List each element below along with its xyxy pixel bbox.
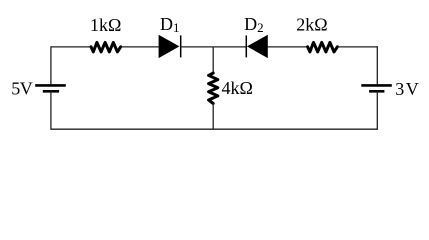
wire R3 down to bottom wire	[212, 104, 214, 130]
diode D1 (anode left, cathode bar right)	[159, 35, 181, 57]
wire left vertical lower (V1 down to corner)	[50, 91, 52, 130]
wire D2 to R2	[267, 46, 307, 48]
svg-text:2kΩ: 2kΩ	[296, 15, 327, 35]
resistor R2 2kΩ (zigzag)	[308, 42, 338, 52]
resistor R3 4kΩ (vertical zigzag)	[209, 73, 218, 104]
svg-text:3V: 3V	[395, 79, 419, 99]
svg-text:5V: 5V	[11, 79, 32, 99]
wire R2 to top-right corner	[337, 46, 377, 48]
node A (top of R3) and wire to D2	[213, 46, 246, 48]
wire D1 to node A	[181, 46, 214, 48]
diode D2 (cathode bar left, anode right)	[246, 35, 267, 57]
resistor R1 1kΩ (zigzag)	[91, 42, 121, 52]
wire R1 to D1	[121, 46, 159, 48]
wire node A down to R3	[212, 47, 214, 73]
wire top-left segment (corner to R1)	[51, 46, 91, 48]
svg-text:4kΩ: 4kΩ	[222, 78, 253, 98]
battery V1 5V (long plate top, short plate bottom)	[35, 85, 66, 91]
wire left vertical upper (corner down to V1)	[50, 46, 52, 84]
svg-text:1kΩ: 1kΩ	[90, 15, 121, 35]
wire right vertical upper (corner down to V2)	[376, 46, 378, 84]
wire right vertical lower (V2 down to corner)	[376, 91, 378, 130]
wire bottom (full width)	[51, 128, 377, 130]
battery V2 3V (long plate top, short plate bottom)	[361, 85, 392, 91]
